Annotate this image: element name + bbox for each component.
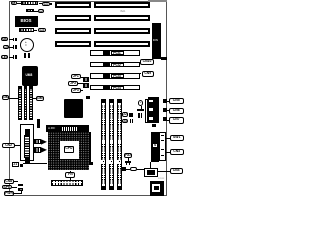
ZIF bar — [46, 125, 89, 132]
connector under BIOS — [19, 28, 34, 32]
PCI slot 1 — [90, 50, 140, 56]
box A — [144, 168, 158, 177]
black strip DIN to edge — [161, 57, 167, 60]
ZIF lever bar — [89, 132, 91, 165]
right edge stubs + callouts — [163, 99, 167, 103]
SW box — [151, 132, 160, 162]
top edge grey strip — [148, 0, 167, 2]
PCI slot 3 — [90, 73, 140, 79]
mid callout cluster — [71, 74, 81, 79]
ISA slot 1 left segment — [55, 2, 91, 8]
SIMM sockets — [18, 86, 22, 120]
bottom right connector — [150, 181, 165, 196]
grey label text — [158, 177, 164, 180]
ISA slot 1 right segment — [94, 2, 151, 8]
battery legs — [24, 53, 26, 59]
left edge callout 2 — [3, 45, 9, 49]
small part left of DIMM1 — [86, 96, 90, 99]
second jumper callout row — [122, 119, 129, 124]
wire SW to box A — [149, 162, 152, 169]
ISA slot 2 right segment — [94, 15, 151, 21]
small box on edge — [12, 162, 19, 168]
wire — [39, 2, 42, 5]
SIMM callout right — [33, 97, 36, 100]
ISA label text — [120, 10, 125, 13]
callout — [2, 143, 15, 148]
DIMM 1 — [101, 99, 107, 190]
ISA slot 4 left segment — [55, 41, 91, 47]
parallel port connector — [21, 1, 38, 5]
wire fan box to box A — [137, 168, 144, 171]
callout below socket — [65, 172, 75, 178]
SIMM end caps — [18, 86, 22, 89]
callout — [38, 28, 47, 32]
top callout 2 — [42, 2, 50, 6]
callout right of PCI2 — [137, 73, 141, 74]
SW callouts — [166, 137, 170, 140]
jumper arrow 1 — [34, 139, 42, 145]
PCI slot 4 — [90, 85, 140, 91]
DIMM lower notches — [101, 160, 105, 165]
BIOS2 chip — [145, 99, 149, 123]
wire — [17, 2, 21, 5]
callout right of PCI1 — [140, 59, 154, 65]
right mid: callout + jumper — [122, 112, 129, 117]
bottom-left callouts — [4, 179, 14, 184]
jumper arrow 2 — [34, 147, 42, 153]
ISA slot 3 right segment — [94, 28, 151, 34]
ISA slot 2 left segment — [55, 15, 91, 21]
BIOS chip — [15, 16, 39, 28]
serial connector row2 — [26, 9, 34, 12]
callout row2 — [38, 9, 45, 13]
top-left callout 1 — [11, 1, 18, 6]
white connector box — [20, 124, 34, 162]
inner striped bar — [25, 129, 30, 136]
board outline — [9, 1, 167, 196]
socket inner — [60, 141, 79, 159]
connector stub — [50, 3, 52, 5]
left edge callout 3 — [1, 55, 9, 59]
jumper + box — [122, 167, 124, 172]
circle glyph — [138, 100, 143, 106]
socket label — [64, 146, 74, 153]
small resistor part — [37, 119, 40, 128]
fan callout cluster — [124, 153, 132, 158]
left edge callout 1 — [1, 37, 9, 41]
chipset — [64, 99, 83, 118]
PCI slot 2 — [90, 62, 140, 68]
CPU socket — [48, 132, 89, 171]
keyboard connector — [152, 23, 162, 59]
ISA slot 4 right segment — [94, 41, 151, 47]
front panel header — [51, 180, 84, 187]
ISA slot 3 left segment — [55, 28, 91, 34]
SIMM callout left — [2, 95, 10, 100]
IO chip — [22, 66, 38, 86]
battery — [20, 38, 34, 52]
DIMM caps — [101, 99, 107, 102]
DIMM 3 — [117, 99, 123, 190]
DIMM center lines — [102, 103, 105, 184]
DIMM 2 — [109, 99, 115, 190]
